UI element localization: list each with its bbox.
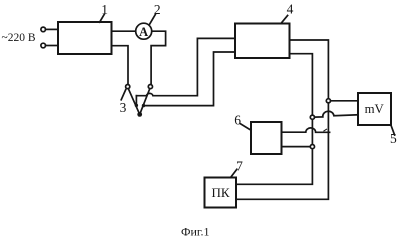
wire block6 upper to right bus (hop over left bus) — [282, 128, 330, 132]
svg-text:6: 6 — [234, 113, 241, 128]
wire block1 to switch left contact — [112, 46, 129, 85]
svg-text:Фиг.1: Фиг.1 — [181, 225, 209, 239]
leader line for label 6 — [241, 124, 251, 130]
tick mark at junction — [324, 129, 327, 131]
wire block6 lower to left bus node — [282, 146, 311, 148]
wire block4 right upper, down right bus, to PC box lower — [236, 40, 328, 199]
label 5 — [390, 131, 397, 146]
svg-text:4: 4 — [287, 1, 294, 16]
switch 3 right blade — [140, 89, 150, 115]
wire — [46, 28, 58, 30]
node on left bus lower — [310, 145, 314, 149]
leader line for label 3 — [121, 90, 126, 100]
wire node to mV lower (hop over right bus) — [315, 111, 358, 117]
label ~220 V source — [2, 32, 36, 44]
svg-text:7: 7 — [236, 159, 243, 174]
stub from left blade up — [135, 96, 137, 106]
svg-text:ПК: ПК — [211, 185, 229, 200]
label 2 — [154, 2, 161, 17]
PC box 7 — [205, 178, 237, 208]
wire node to mV upper — [331, 100, 358, 102]
svg-text:5: 5 — [390, 131, 397, 146]
wire switch to block4 lower — [144, 52, 236, 106]
junction dot on left blade — [135, 104, 138, 107]
leader line for label 4 — [281, 16, 287, 24]
wire — [46, 45, 58, 47]
leader line for label 7 — [231, 169, 237, 177]
label 1 — [101, 2, 108, 17]
wire block4 right lower, down left bus, to PC box upper — [236, 54, 312, 185]
svg-text:3: 3 — [120, 100, 127, 115]
leader line for label 5 — [391, 125, 395, 135]
node on left bus — [310, 115, 314, 119]
label 3 — [120, 100, 127, 115]
block 4 (furnace unit) — [235, 24, 290, 59]
terminal circle bottom — [41, 43, 46, 48]
wire block1 to ammeter — [112, 30, 136, 32]
caption — [181, 225, 209, 239]
switch 3 left blade — [128, 89, 139, 115]
leader line for label 2 — [150, 15, 156, 25]
svg-text:mV: mV — [365, 102, 385, 116]
mV box 5 — [358, 93, 391, 125]
label 6 — [234, 113, 241, 128]
svg-text:A: A — [139, 25, 148, 39]
wire ammeter to switch right contact — [151, 31, 166, 84]
svg-text:1: 1 — [101, 2, 108, 17]
label 4 — [287, 1, 294, 16]
label 7 — [236, 159, 243, 174]
svg-text:2: 2 — [154, 2, 161, 17]
switch pivot dot — [137, 112, 142, 117]
wire switch to block4 upper (with hop over right blade) — [136, 38, 235, 95]
block 6 (sensor unit) — [251, 122, 282, 154]
block 1 (transformer unit) — [58, 22, 112, 54]
switch 3 right contact — [148, 85, 152, 89]
leader line for label 1 — [100, 14, 105, 22]
terminal circle top — [41, 27, 46, 32]
ammeter A2 — [136, 23, 152, 39]
junction dot on right blade — [142, 104, 145, 107]
node on right bus — [326, 99, 330, 103]
switch 3 left contact — [126, 85, 130, 89]
svg-text:~220 В: ~220 В — [2, 32, 36, 44]
